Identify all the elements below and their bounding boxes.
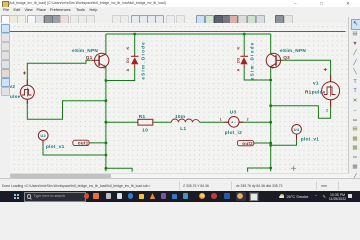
svg-text:eSim_Diode: eSim_Diode <box>140 41 145 80</box>
svg-text:D1: D1 <box>126 58 130 63</box>
svg-text:U2: U2 <box>40 133 46 138</box>
svg-text:eSim_NPN: eSim_NPN <box>72 48 98 53</box>
svg-text:Q1: Q1 <box>85 55 92 60</box>
svg-text:v2: v2 <box>10 84 15 89</box>
svg-text:eSim_NPN: eSim_NPN <box>280 48 306 53</box>
svg-text:plot_v1: plot_v1 <box>46 144 65 149</box>
svg-text:pulse: pulse <box>311 90 325 95</box>
svg-text:D3: D3 <box>236 58 240 63</box>
svg-text:R1: R1 <box>138 114 145 119</box>
svg-text:2: 2 <box>326 108 328 112</box>
svg-text:K: K <box>236 47 240 50</box>
svg-text:1: 1 <box>219 118 221 122</box>
svg-text:R1: R1 <box>305 90 312 95</box>
svg-text:eSim_Diode: eSim_Diode <box>249 41 254 80</box>
svg-text:U4: U4 <box>293 127 299 132</box>
svg-text:10: 10 <box>142 127 148 132</box>
svg-text:2: 2 <box>246 117 248 121</box>
svg-text:10m: 10m <box>175 114 185 119</box>
svg-text:K: K <box>126 47 130 50</box>
svg-text:L1: L1 <box>180 126 186 131</box>
svg-text:v1: v1 <box>313 81 319 86</box>
svg-text:out1: out1 <box>77 141 88 146</box>
svg-text:Q3: Q3 <box>283 55 290 60</box>
svg-text:pulse: pulse <box>10 94 21 99</box>
svg-text:+ -: + - <box>231 121 236 125</box>
svg-text:plot_i2: plot_i2 <box>224 130 241 135</box>
svg-text:out2: out2 <box>242 141 253 146</box>
svg-text:A: A <box>236 69 240 72</box>
svg-text:U3: U3 <box>229 109 236 114</box>
svg-text:A: A <box>126 69 130 72</box>
svg-text:plot_v1: plot_v1 <box>300 137 319 142</box>
